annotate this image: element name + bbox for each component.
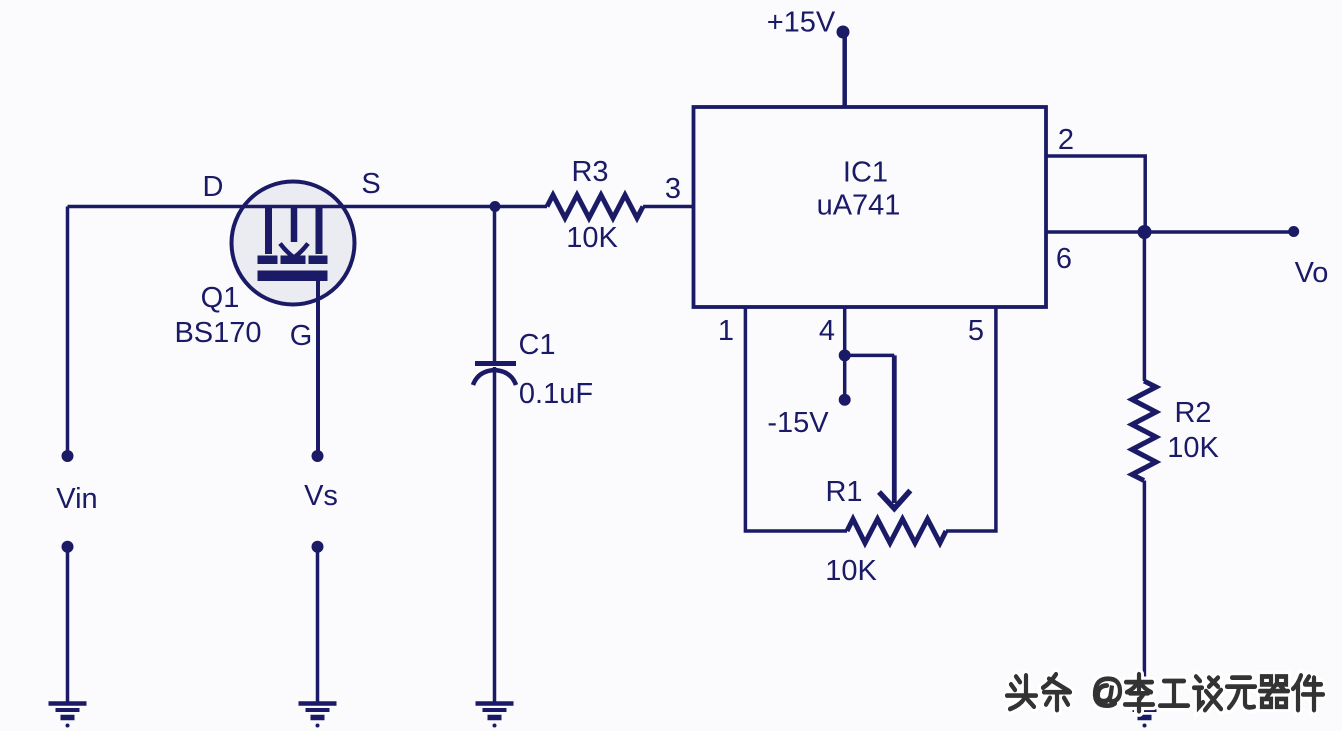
label 0.1uF <box>519 378 593 410</box>
svg-text:+15V: +15V <box>767 7 836 39</box>
label IC1 <box>843 157 888 189</box>
wire: R2 to ground <box>1143 481 1147 704</box>
svg-text:5: 5 <box>968 315 984 347</box>
label Vin <box>56 483 97 515</box>
power +15V label <box>767 7 836 39</box>
ground (R2) <box>1126 704 1164 728</box>
svg-text:BS170: BS170 <box>174 317 261 349</box>
svg-text:3: 3 <box>665 173 681 205</box>
svg-text:Vo: Vo <box>1295 257 1329 289</box>
ground (C1) <box>476 704 514 728</box>
wire: +15V to IC top <box>842 34 847 107</box>
transistor Q1 body circle <box>232 182 355 305</box>
resistor R2 <box>1132 381 1156 481</box>
node: -15V terminal dot <box>839 394 851 406</box>
label 10K (R1) <box>825 555 877 587</box>
label R2 <box>1174 397 1211 429</box>
pin label S <box>361 168 380 200</box>
node: Vs lower dot <box>312 541 324 553</box>
resistor R3 <box>547 195 643 218</box>
svg-text:R2: R2 <box>1174 397 1211 429</box>
node: pin2/pin6/R2 junction dot <box>1138 225 1152 239</box>
wire: IC pin 5 to R1 right <box>946 307 996 531</box>
label Q1 <box>201 282 240 314</box>
svg-text:4: 4 <box>819 315 835 347</box>
svg-text:-15V: -15V <box>767 407 829 439</box>
node: Vin terminal dot <box>62 450 74 462</box>
svg-text:C1: C1 <box>518 329 555 361</box>
pin number 1 <box>718 315 734 347</box>
pin number 5 <box>968 315 984 347</box>
wire: pin4 junction to R1 wiper <box>845 355 895 503</box>
wire: Vin lower to ground <box>66 547 70 703</box>
svg-text:D: D <box>203 171 224 203</box>
wire: Vin vertical from D node <box>66 207 70 457</box>
svg-text:Q1: Q1 <box>201 282 240 314</box>
wire: junction to R2 <box>1143 232 1147 381</box>
svg-text:S: S <box>361 168 380 200</box>
node: pin4 junction dot <box>839 349 851 361</box>
transistor Q1 internal structure <box>258 207 328 282</box>
label 10K (R3) <box>566 222 618 254</box>
label BS170 <box>174 317 261 349</box>
svg-text:uA741: uA741 <box>817 190 901 222</box>
label R1 <box>825 476 862 508</box>
svg-text:0.1uF: 0.1uF <box>519 378 593 410</box>
node: Vin lower dot <box>62 541 74 553</box>
svg-text:10K: 10K <box>825 555 877 587</box>
wire: Vs lower to ground <box>316 547 320 703</box>
wire: C1 to ground <box>493 367 497 703</box>
label Vs <box>304 480 338 512</box>
pin number 3 <box>665 173 681 205</box>
svg-text:Vin: Vin <box>56 483 97 515</box>
wire: IC pin 2 <box>1046 156 1145 232</box>
svg-text:R1: R1 <box>825 476 862 508</box>
svg-text:G: G <box>290 320 313 352</box>
pin number 6 <box>1056 243 1072 275</box>
svg-text:10K: 10K <box>1167 432 1219 464</box>
svg-text:IC1: IC1 <box>843 157 888 189</box>
wire: R3 to IC pin 3 <box>643 205 694 209</box>
node: +15V terminal dot <box>837 26 850 39</box>
capacitor C1 wire from node A <box>493 207 497 363</box>
pin label G <box>290 320 313 352</box>
capacitor C1 <box>473 364 516 386</box>
wire: IC pin 6 to Vo <box>1046 230 1294 234</box>
label R3 <box>571 156 608 188</box>
svg-text:Vs: Vs <box>304 480 338 512</box>
wire: D horizontal from left corner through Q1 to node A <box>68 205 548 209</box>
pin label D <box>203 171 224 203</box>
ground (Vin) <box>49 704 87 728</box>
node A junction dot (S / R3 / C1) <box>490 201 501 212</box>
wire: pin4 junction to -15V terminal <box>843 355 847 399</box>
pin number 2 <box>1058 124 1074 156</box>
svg-text:6: 6 <box>1056 243 1072 275</box>
power -15V label <box>767 407 829 439</box>
wire: IC pin 4 <box>843 307 847 355</box>
label C1 <box>518 329 555 361</box>
label 10K (R2) <box>1167 432 1219 464</box>
potentiometer R1 <box>847 519 946 543</box>
label uA741 <box>817 190 901 222</box>
svg-text:1: 1 <box>718 315 734 347</box>
svg-text:2: 2 <box>1058 124 1074 156</box>
ground (Vs) <box>299 704 337 728</box>
node: Vo terminal dot <box>1288 226 1299 237</box>
svg-text:R3: R3 <box>571 156 608 188</box>
pin number 4 <box>819 315 835 347</box>
R1 wiper arrowhead <box>879 491 910 509</box>
wire: G vertical to Vs <box>316 281 320 456</box>
label Vo <box>1295 257 1329 289</box>
op-amp IC1 box <box>694 107 1047 307</box>
node: Vs terminal dot <box>312 450 324 462</box>
svg-text:10K: 10K <box>566 222 618 254</box>
wire: IC pin 1 to R1 left <box>745 307 847 531</box>
